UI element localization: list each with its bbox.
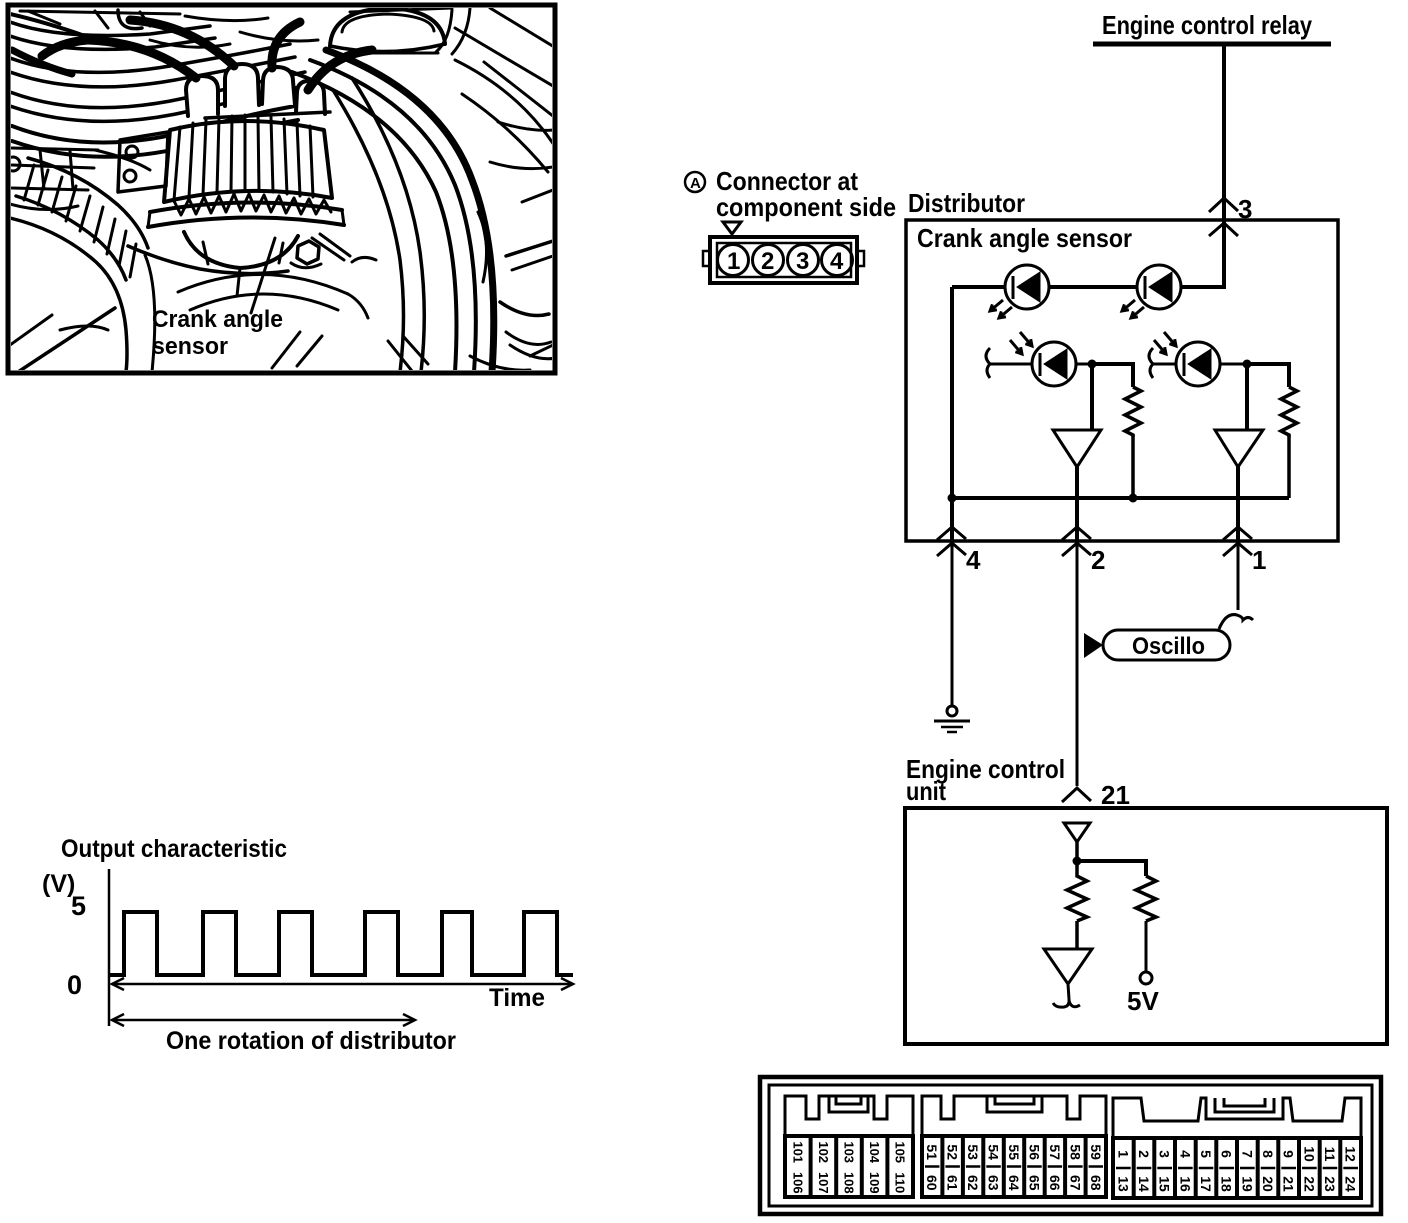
svg-text:103: 103 (842, 1141, 857, 1163)
wire: left vertical rail (950, 287, 954, 541)
svg-text:2: 2 (761, 248, 774, 275)
svg-text:8: 8 (1260, 1150, 1276, 1158)
svg-text:110: 110 (893, 1172, 908, 1193)
svg-text:Distributor: Distributor (908, 188, 1025, 218)
svg-text:12: 12 (1343, 1146, 1359, 1162)
svg-text:52: 52 (945, 1144, 961, 1160)
connector A pin 1 (718, 245, 749, 276)
node: ECU divider (1073, 857, 1082, 866)
svg-text:106: 106 (790, 1172, 805, 1194)
leader line to sensor (251, 238, 275, 313)
wire: LED chain horizontal (952, 285, 1224, 289)
svg-text:61: 61 (945, 1175, 961, 1191)
svg-text:57: 57 (1047, 1144, 1063, 1160)
svg-text:107: 107 (816, 1172, 831, 1194)
ECU connector outer shell (760, 1077, 1381, 1214)
comparator output squiggle (1053, 984, 1080, 1007)
pin 1 connector symbol (1223, 527, 1252, 556)
distributor housing (184, 232, 298, 268)
connector block 2 pin grid (pins 51-68) (922, 1136, 1106, 1197)
left bracket and clamp (12, 148, 98, 190)
svg-text:20: 20 (1260, 1176, 1276, 1192)
svg-text:4: 4 (966, 545, 981, 575)
svg-text:67: 67 (1067, 1175, 1083, 1191)
wire: D3 junction to buffer B1 (1090, 364, 1094, 430)
photodiode D4 (1149, 332, 1247, 386)
svg-text:Time: Time (489, 984, 545, 1012)
engine top cover arcs below distributor (128, 246, 288, 274)
svg-text:sensor: sensor (152, 333, 228, 360)
svg-text:101: 101 (790, 1141, 805, 1163)
svg-text:60: 60 (924, 1175, 940, 1191)
distributor cap towers (186, 76, 218, 116)
svg-text:22: 22 (1301, 1176, 1317, 1192)
svg-text:21: 21 (1101, 780, 1130, 810)
corrugated intake hose left (28, 158, 148, 248)
lower-middle sticks (272, 332, 322, 368)
wire: R3 to comparator (1075, 921, 1079, 949)
svg-text:5: 5 (1198, 1150, 1214, 1158)
svg-text:65: 65 (1026, 1175, 1042, 1191)
graph y-axis (108, 869, 111, 1026)
wire: pin 2 to ECU pin 21 (1076, 541, 1079, 786)
canister top-right (330, 8, 445, 46)
wire: R1 to common rail (1131, 435, 1135, 498)
connector block 1 housing (785, 1096, 913, 1197)
resistor R3 (1067, 861, 1087, 921)
pin 21 connector symbol (1062, 788, 1091, 802)
engine illustration line art (6, 8, 556, 372)
resistor R4 (1136, 876, 1156, 921)
svg-text:18: 18 (1219, 1176, 1235, 1192)
node: D4 junction (1243, 360, 1252, 369)
svg-text:64: 64 (1006, 1175, 1022, 1191)
comparator triangle (1044, 949, 1092, 984)
svg-text:24: 24 (1343, 1176, 1359, 1192)
svg-text:Crank angle sensor: Crank angle sensor (917, 223, 1132, 253)
svg-text:3: 3 (1157, 1150, 1173, 1158)
svg-text:11: 11 (1322, 1147, 1338, 1162)
svg-text:63: 63 (986, 1175, 1002, 1191)
connector block 1 pin grid (pins 101-110) (785, 1136, 913, 1197)
node: rail left (948, 494, 957, 503)
svg-text:2: 2 (1136, 1150, 1152, 1158)
wire: pin 4 to ground (951, 541, 954, 706)
photodiode D3 (986, 332, 1092, 386)
svg-text:54: 54 (986, 1144, 1002, 1160)
distributor cap body (164, 121, 332, 202)
connector block 2 housing (922, 1096, 1106, 1197)
engine photo frame (8, 5, 555, 373)
resistor R2 (1281, 387, 1297, 437)
svg-text:51: 51 (924, 1144, 940, 1160)
svg-text:68: 68 (1088, 1175, 1104, 1191)
square wave trace (109, 912, 573, 975)
svg-text:Oscillo: Oscillo (1132, 633, 1205, 660)
node: rail R1 (1129, 494, 1138, 503)
svg-text:1: 1 (1115, 1150, 1131, 1158)
wire: D4 junction to buffer B2 (1245, 364, 1249, 430)
pin 4 connector symbol (937, 527, 966, 556)
hex bolt (297, 241, 319, 264)
svg-text:105: 105 (893, 1141, 908, 1163)
svg-text:6: 6 (1219, 1150, 1235, 1158)
connector A right tab (857, 251, 864, 266)
wire: pin 1 stub (1237, 541, 1240, 610)
engine control unit box (905, 808, 1387, 1044)
top-left wire tangle (10, 22, 210, 36)
wire: triangle to node (1075, 842, 1079, 861)
right engine contours (455, 28, 553, 86)
cap left bracket (118, 132, 168, 192)
svg-text:53: 53 (965, 1144, 981, 1160)
resistor R1 (1125, 387, 1141, 437)
thick plug wires (88, 40, 196, 78)
svg-text:0: 0 (67, 970, 82, 1000)
time axis arrow (112, 978, 573, 990)
svg-text:15: 15 (1157, 1176, 1173, 1192)
svg-text:21: 21 (1281, 1176, 1297, 1192)
svg-text:9: 9 (1281, 1150, 1297, 1158)
LED D2 (1122, 265, 1181, 318)
pin 2 connector symbol (1062, 527, 1091, 556)
ECU input triangle (1064, 823, 1090, 842)
svg-text:66: 66 (1047, 1175, 1063, 1191)
svg-text:62: 62 (965, 1175, 981, 1191)
connector A pin 4 (822, 245, 853, 276)
node: D3 junction (1088, 360, 1097, 369)
wire: R2 to common rail (1287, 435, 1291, 498)
svg-text:14: 14 (1136, 1176, 1152, 1192)
svg-text:5: 5 (71, 891, 86, 921)
svg-text:3: 3 (796, 248, 809, 275)
connector A body (710, 237, 857, 283)
svg-text:component side: component side (716, 192, 896, 222)
svg-text:4: 4 (830, 248, 844, 275)
svg-text:Output characteristic: Output characteristic (61, 835, 287, 863)
svg-text:104: 104 (867, 1141, 882, 1163)
common rail wire (952, 496, 1289, 500)
svg-text:4: 4 (1177, 1150, 1193, 1158)
buffer B2 (1215, 430, 1263, 467)
oscillo pill (1103, 630, 1230, 660)
svg-text:13: 13 (1115, 1176, 1131, 1192)
svg-text:59: 59 (1088, 1144, 1104, 1160)
svg-text:1: 1 (1252, 545, 1266, 575)
connector A left tab (703, 251, 710, 266)
svg-text:unit: unit (906, 776, 946, 806)
svg-text:102: 102 (816, 1141, 831, 1163)
svg-text:109: 109 (867, 1172, 882, 1194)
distributor box (906, 220, 1338, 541)
svg-text:A: A (690, 175, 701, 192)
svg-text:58: 58 (1067, 1144, 1083, 1160)
svg-text:17: 17 (1198, 1176, 1214, 1192)
svg-text:5V: 5V (1127, 986, 1159, 1016)
wire: B1 output to pin 2 (1075, 467, 1079, 541)
wire: D3 junction to resistor R1 (1092, 364, 1133, 387)
wire: relay to pin 3 (1159, 46, 1224, 287)
svg-text:2: 2 (1091, 545, 1105, 575)
pin 3 connector symbol (1209, 198, 1238, 236)
5V terminal (1140, 972, 1152, 984)
svg-text:10: 10 (1301, 1146, 1317, 1162)
svg-text:19: 19 (1239, 1176, 1255, 1192)
buffer B1 (1053, 430, 1101, 467)
connector index triangle marker (723, 222, 741, 234)
ground (934, 706, 970, 732)
svg-text:23: 23 (1322, 1176, 1338, 1192)
connector A pin 3 (788, 245, 819, 276)
connector A pin 2 (753, 245, 784, 276)
skirt flange (150, 202, 342, 212)
connector block 3 housing (1113, 1098, 1361, 1198)
connector block 3 pin grid (pins 1-24) (1113, 1138, 1361, 1198)
oscillo probe arrow (1084, 633, 1103, 658)
svg-text:1: 1 (727, 248, 740, 275)
svg-text:Engine control relay: Engine control relay (1102, 10, 1312, 40)
wire: D4 junction to resistor R2 (1247, 364, 1289, 387)
svg-text:55: 55 (1006, 1144, 1022, 1160)
wire: node to R4 (1077, 861, 1146, 876)
air cleaner blob lower-left (10, 218, 127, 372)
svg-text:16: 16 (1177, 1176, 1193, 1192)
engine control relay bus bar (1093, 42, 1331, 47)
svg-text:56: 56 (1026, 1144, 1042, 1160)
cap teeth (174, 194, 331, 215)
svg-text:One rotation of distributor: One rotation of distributor (166, 1027, 456, 1055)
callout circle A (685, 172, 705, 192)
svg-text:108: 108 (842, 1172, 857, 1194)
extra harness/contour strokes (10, 14, 85, 36)
svg-text:Crank angle: Crank angle (152, 306, 283, 333)
one-rotation arrow (112, 1014, 415, 1026)
svg-text:7: 7 (1239, 1150, 1255, 1158)
wire: R4 to 5V (1145, 921, 1148, 972)
right big hose sweeps (310, 60, 476, 372)
LED D1 (990, 265, 1049, 318)
wire: B2 output to pin 1 (1236, 467, 1240, 541)
svg-text:3: 3 (1238, 194, 1252, 224)
ECU connector inner shell (769, 1085, 1372, 1206)
pin 1 wire break squiggle (1219, 615, 1253, 629)
white belt band (352, 78, 424, 372)
